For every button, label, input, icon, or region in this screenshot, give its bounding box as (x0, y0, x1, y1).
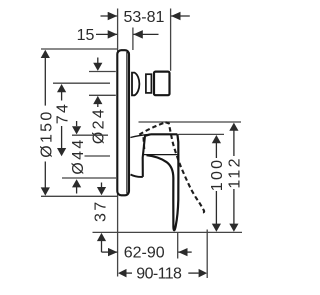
plate face inner line (126, 52, 128, 194)
extension line 112 top (dashed lever top) (139, 121, 242, 123)
svg-text:Ø44: Ø44 (70, 137, 87, 174)
dim Ø150 (plate diameter, left) (39, 49, 118, 196)
dim 100 (right) (209, 135, 226, 232)
extension line lever front x=177.7 (177, 232, 179, 258)
dashed lever outer edge (rotated) (166, 122, 205, 212)
dim 90-118 (118, 265, 207, 282)
svg-text:Ø150: Ø150 (39, 109, 56, 157)
cartridge sleeve bottom edge (131, 175, 143, 177)
svg-text:74: 74 (54, 102, 71, 124)
svg-text:90-118: 90-118 (136, 265, 182, 282)
dashed cap left edge (rotated) (142, 137, 145, 152)
spout stub collar (dome) (132, 73, 139, 96)
handle cap top edge (151, 133, 178, 135)
escutcheon plate (side view) (117, 50, 129, 195)
dim 62-90 (102, 245, 192, 262)
spout stub small cylinder (146, 74, 152, 93)
lever outer edge (cap right continuing to tip) (173, 134, 178, 230)
lever inner edge (147, 155, 174, 227)
extension line plate front x=132.9 (15 right) (132, 28, 134, 51)
extension line spout stub end x=170.6 (53-81 right) (170, 9, 172, 71)
extension line 100 top (cap top) (179, 133, 225, 135)
dashed lever (rotated position) (139, 122, 204, 212)
dim 112 (right) (227, 123, 244, 232)
svg-text:53-81: 53-81 (123, 9, 164, 26)
dim Ø44 (cartridge sleeve diameter) (62, 121, 116, 194)
svg-text:Ø24: Ø24 (90, 107, 107, 144)
handle cap left edge + sleeve front face (143, 134, 151, 177)
dim 74 (spout axis to handle axis) (53, 83, 110, 156)
dashed cap top edge (rotated) (139, 122, 165, 134)
dim 15 (77, 27, 159, 44)
svg-text:112: 112 (227, 156, 244, 188)
svg-text:100: 100 (209, 158, 226, 192)
handle joint line (143, 154, 177, 156)
wall extension line (left boundary x=117.6) (117, 9, 119, 277)
extension line dashed-lever reach x=207.2 (206, 230, 208, 279)
svg-text:15: 15 (77, 27, 95, 44)
dim 53-81 (101, 9, 190, 26)
dim Ø24 (spout stub diameter) (89, 58, 116, 145)
bottom reference line (lever tip level) (93, 231, 243, 233)
spout stub main cylinder Ø24 (154, 72, 170, 96)
dim 37 (plate bottom to lever tip level) (93, 183, 110, 253)
svg-text:62-90: 62-90 (124, 245, 165, 262)
cartridge sleeve top edge (130, 134, 150, 137)
svg-text:37: 37 (93, 200, 110, 222)
